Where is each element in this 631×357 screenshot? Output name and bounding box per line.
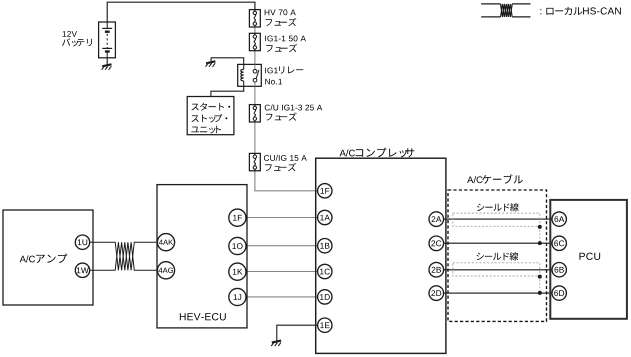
pin 1F (HEV-ECU) — [229, 209, 246, 226]
pin 1K — [229, 263, 246, 280]
box スタート・ストップ・ユニット — [187, 97, 234, 135]
box A/Cコンプレッサ — [316, 158, 446, 353]
label シールド線 (lower) — [476, 253, 483, 260]
pin 1U — [75, 235, 89, 249]
wire: HEV-ECU 1O to compressor 1B — [243, 245, 318, 247]
junction dot shield 2 drain — [538, 291, 542, 295]
pin 2C (compressor) — [429, 236, 444, 251]
shield wire シールド線 2 — [453, 263, 542, 295]
pin 2B (compressor) — [429, 262, 444, 277]
box PCU — [550, 200, 627, 319]
pin 1C (compressor) — [318, 264, 332, 278]
box HEV-ECU — [157, 185, 247, 328]
pin 1D (compressor) — [318, 290, 332, 304]
label A/Cコンプレッサ — [340, 148, 415, 158]
wire: HEV-ECU 1F to compressor 1A — [243, 217, 318, 219]
label IG1-1 50 A フューズ — [265, 36, 306, 53]
label C/U IG1-3 25 A フューズ — [265, 104, 323, 120]
wire: compressor 1E to ground — [277, 325, 318, 341]
wire: relay coil to start-stop unit — [211, 86, 244, 96]
wire: compressor 2B to PCU 6B — [443, 269, 552, 271]
label シールド線 (upper) — [477, 204, 484, 211]
pin 6D (PCU) — [552, 286, 566, 300]
battery 12V バッテリ — [99, 22, 116, 58]
label HEV-ECU — [180, 313, 186, 320]
pin 6B (PCU) — [552, 263, 566, 277]
pin 2A (compressor) — [429, 212, 444, 227]
pin 1O — [229, 237, 246, 254]
pin 1W — [75, 263, 89, 277]
wire: battery negative to ground — [106, 58, 108, 65]
fuse CU/IG 15 A — [249, 153, 260, 170]
wire: compressor 2A to PCU 6A — [443, 218, 552, 220]
ground (battery) — [102, 64, 112, 70]
pin 1F (compressor) — [318, 184, 332, 198]
pin 1A (compressor) — [318, 210, 332, 224]
label CU/IG 15 A フューズ — [264, 155, 307, 171]
pin 1E (compressor) — [318, 318, 332, 332]
wire: HEV-ECU 1J to compressor 1D — [243, 296, 318, 298]
shield wire シールド線 1 — [453, 213, 542, 245]
label 12V バッテリ — [62, 31, 92, 46]
wire: IG1 relay coil to ground — [211, 58, 244, 65]
legend: twisted pair symbol ローカルHS-CAN — [481, 4, 530, 17]
pin 1B (compressor) — [318, 239, 332, 253]
pin 4AK — [157, 234, 174, 251]
label ローカルHS-CAN — [540, 7, 620, 15]
pin 6C (PCU) — [552, 236, 566, 250]
pin 1J — [229, 288, 246, 305]
pin 4AG — [157, 262, 174, 279]
relay IG1リレー No.1 — [238, 64, 262, 86]
fuse C/U IG1-3 25 A — [249, 105, 260, 122]
pin 2D (compressor) — [429, 286, 444, 301]
A/C cable dashed box A/Cケーブル — [448, 190, 547, 321]
wire: compressor 2D to PCU 6D — [443, 292, 552, 294]
label PCU — [579, 253, 584, 260]
fuse HV 70 A — [249, 10, 260, 27]
label スタート・ストップ・ユニット — [191, 103, 230, 134]
junction dot shield 1 drain — [538, 241, 542, 245]
pin 6A (PCU) — [552, 212, 566, 226]
label HV 70 A フューズ — [265, 9, 297, 26]
box A/Cアンプ — [3, 210, 93, 305]
label A/Cアンプ — [20, 254, 68, 263]
wire: compressor 2C to PCU 6C — [443, 242, 552, 244]
wire: CU/IG fuse to compressor pin 1F — [255, 171, 318, 191]
fuse IG1-1 50 A — [249, 33, 260, 50]
ground (compressor 1E) — [271, 341, 281, 347]
ground (IG1 relay) — [206, 61, 216, 67]
label IG1リレー No.1 — [265, 66, 303, 84]
label A/Cケーブル — [467, 174, 523, 183]
wire: HEV-ECU 1K to compressor 1C — [243, 271, 318, 273]
wire: battery positive to HV fuse — [107, 2, 255, 22]
wire: power bus segments (gray) — [254, 27, 256, 33]
wire: twisted pair 1U-4AK / 1W-4AG (local HS-CAN) — [90, 242, 158, 270]
